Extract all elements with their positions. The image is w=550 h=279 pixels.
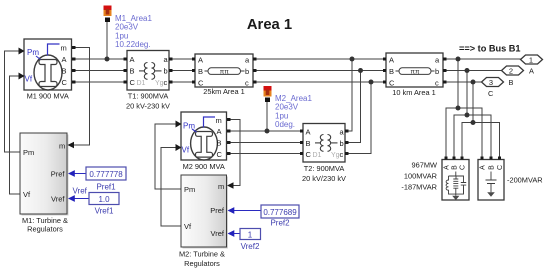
junction load a — [456, 106, 461, 111]
svg-text:Regulators: Regulators — [27, 225, 63, 234]
label M2 Turbine and Regulators — [179, 250, 225, 269]
svg-text:b: b — [435, 67, 439, 76]
port 2 hexagon — [502, 66, 524, 76]
wire phase a: 10km to port 1 — [443, 58, 521, 60]
wire phase c: 25km to 10km block — [253, 81, 386, 83]
wire load distribution phase c — [462, 123, 500, 159]
svg-text:25km Area 1: 25km Area 1 — [203, 87, 245, 96]
svg-text:C: C — [497, 165, 504, 170]
svg-text:Vref: Vref — [211, 229, 225, 238]
svg-text:Pm: Pm — [23, 148, 34, 157]
junction T2 a tap — [350, 57, 355, 62]
svg-text:m: m — [216, 116, 222, 125]
wire T2 b riser to bus — [347, 71, 361, 143]
wire phase a: T1 to 25km block — [169, 58, 195, 60]
wire M1 m measurement — [72, 48, 90, 146]
svg-text:M1_Area1: M1_Area1 — [115, 14, 152, 23]
svg-text:T1: 900MVA: T1: 900MVA — [128, 92, 169, 101]
svg-text:A: A — [479, 165, 486, 170]
measurement icon M1_Area1 — [104, 6, 112, 23]
label M2_Area1 measurements — [275, 94, 312, 129]
svg-text:m: m — [218, 182, 224, 191]
port squares 10km block — [383, 57, 447, 83]
svg-text:A: A — [443, 165, 450, 170]
wire load distribution phase b — [454, 115, 491, 158]
wire T2 a riser to bus — [347, 59, 352, 131]
wire load drop phase a — [457, 59, 459, 108]
svg-text:0.777689: 0.777689 — [263, 208, 297, 217]
line block 10 km Area 1 — [386, 53, 443, 88]
junction load b — [465, 113, 470, 118]
svg-text:B: B — [130, 67, 135, 76]
svg-text:1.0: 1.0 — [98, 195, 110, 204]
label T2 — [302, 164, 346, 183]
svg-text:Vf: Vf — [182, 146, 190, 155]
subsystem M2 Turbine and Regulators — [181, 175, 234, 249]
svg-text:c: c — [245, 79, 249, 88]
svg-text:1pu: 1pu — [275, 111, 288, 120]
svg-text:Pm: Pm — [184, 185, 195, 194]
wire phase C: M1 to T1 — [72, 81, 126, 83]
svg-text:Vref1: Vref1 — [95, 207, 114, 216]
svg-text:c: c — [340, 150, 344, 159]
wire T2 c riser to bus — [347, 82, 371, 154]
junction M1_Area1 tap — [105, 57, 110, 62]
signal label Vref — [73, 187, 88, 196]
svg-text:B: B — [509, 78, 514, 87]
svg-text:Yg: Yg — [331, 152, 340, 159]
junction M2_Area1 tap — [265, 129, 270, 134]
svg-text:B: B — [306, 139, 311, 148]
load block 967MW — [442, 160, 469, 201]
svg-text:ππ: ππ — [411, 68, 420, 75]
wire M1_Area1 tap drop — [106, 21, 108, 59]
label M1 900 MVA — [27, 92, 69, 101]
svg-text:C: C — [217, 150, 223, 159]
measurement icon M2_Area1 — [264, 86, 272, 102]
svg-text:A: A — [62, 55, 67, 64]
label Pref2 — [270, 219, 290, 228]
junction T2 b tap — [358, 68, 363, 73]
svg-text:M2 900 MVA: M2 900 MVA — [183, 162, 225, 171]
svg-text:m: m — [59, 142, 65, 151]
svg-text:20e3V: 20e3V — [275, 103, 299, 112]
wire phase c: T1 to 25km block — [169, 81, 195, 83]
label 25km Area 1 — [203, 87, 245, 96]
svg-text:A: A — [198, 56, 203, 65]
label M2 900 MVA — [183, 162, 225, 171]
svg-text:Vf: Vf — [25, 75, 33, 84]
transformer T2 — [303, 124, 345, 163]
junction bus b load tap — [465, 68, 470, 73]
subsystem M1 Turbine and Regulators — [20, 133, 74, 216]
svg-text:0.777778: 0.777778 — [89, 170, 123, 179]
label Pref1 — [96, 183, 116, 192]
svg-text:b: b — [245, 67, 249, 76]
port squares T1 — [124, 57, 173, 83]
constant Pref2 — [228, 205, 300, 218]
wire load distribution phase a — [446, 108, 482, 158]
svg-text:10 km Area 1: 10 km Area 1 — [392, 88, 436, 97]
port 1 hexagon — [521, 55, 543, 65]
svg-text:Regulators: Regulators — [184, 259, 220, 268]
svg-text:A: A — [306, 128, 311, 137]
svg-text:C: C — [488, 89, 494, 98]
svg-text:Pref1: Pref1 — [96, 183, 116, 192]
svg-text:B: B — [198, 67, 203, 76]
label -200MVAR — [507, 176, 543, 185]
svg-text:Pref: Pref — [210, 206, 225, 215]
svg-text:A: A — [130, 55, 135, 64]
svg-text:c: c — [164, 78, 168, 87]
label M1_Area1 measurements — [115, 14, 152, 49]
svg-text:C: C — [389, 79, 395, 88]
svg-text:b: b — [164, 67, 168, 76]
wire M2 phase A to T2 — [230, 130, 301, 132]
label A under port 1 — [529, 67, 534, 76]
svg-text:Pm: Pm — [27, 48, 39, 57]
junction load c — [471, 120, 476, 125]
label Vref1 — [95, 207, 114, 216]
port squares M2 outputs — [227, 118, 230, 155]
svg-text:Vref2: Vref2 — [241, 242, 260, 251]
label Vref2 — [241, 242, 260, 251]
svg-text:10.22deg.: 10.22deg. — [115, 40, 151, 49]
svg-text:20 kV/230 kV: 20 kV/230 kV — [302, 174, 346, 183]
svg-text:Vref: Vref — [73, 187, 88, 196]
svg-text:M1 900 MVA: M1 900 MVA — [27, 92, 69, 101]
title Area 1 — [247, 17, 292, 33]
label load 967MW — [401, 161, 437, 192]
junction bus c load tap — [471, 80, 476, 85]
wire phase b: T1 to 25km block — [169, 70, 195, 72]
label to Bus B1 — [459, 44, 521, 54]
svg-text:D1: D1 — [313, 152, 322, 159]
svg-text:1pu: 1pu — [115, 31, 128, 40]
port squares 25km block — [192, 57, 257, 83]
svg-text:967MW: 967MW — [412, 161, 437, 170]
wire phase b: 25km to 10km block — [253, 70, 386, 72]
wire phase a: 25km to 10km block — [253, 58, 386, 60]
svg-text:Pref: Pref — [51, 170, 66, 179]
svg-text:B: B — [389, 67, 394, 76]
machine M2 900 MVA — [176, 112, 227, 160]
svg-text:==> to Bus B1: ==> to Bus B1 — [459, 44, 521, 54]
svg-text:Area 1: Area 1 — [247, 17, 292, 33]
svg-text:C: C — [62, 78, 68, 87]
constant Vref1 — [68, 193, 119, 205]
port squares load -200MVAR — [480, 156, 501, 159]
junction bus a load tap — [456, 57, 461, 62]
line block 25km Area 1 — [195, 54, 253, 88]
svg-text:B: B — [217, 139, 222, 148]
svg-text:100MVAR: 100MVAR — [404, 172, 437, 181]
wire phase A: M1 to T1 — [72, 58, 126, 60]
svg-text:20e3V: 20e3V — [115, 23, 139, 32]
machine M1 900 MVA — [19, 39, 72, 90]
svg-text:M2_Area1: M2_Area1 — [275, 94, 312, 103]
svg-text:A: A — [389, 56, 394, 65]
svg-text:0deg.: 0deg. — [275, 120, 295, 129]
label C under port 3 — [488, 89, 494, 98]
svg-text:Yg: Yg — [155, 80, 164, 87]
svg-text:A: A — [529, 67, 534, 76]
port 3 hexagon — [482, 78, 504, 88]
svg-text:Vf: Vf — [23, 190, 31, 199]
svg-text:C: C — [130, 78, 136, 87]
wire phase B: M1 to T1 — [72, 70, 126, 72]
svg-text:C: C — [459, 165, 466, 170]
svg-text:-187MVAR: -187MVAR — [401, 183, 437, 192]
load block -200MVAR — [478, 160, 504, 201]
port squares load 967MW — [444, 156, 463, 159]
svg-text:1: 1 — [529, 56, 533, 65]
svg-text:D1: D1 — [137, 80, 146, 87]
label T1 — [126, 92, 170, 111]
svg-text:-200MVAR: -200MVAR — [507, 176, 543, 185]
svg-text:20 kV-230 kV: 20 kV-230 kV — [126, 102, 170, 111]
wire M1 Pm feedback — [5, 51, 21, 152]
svg-text:C: C — [306, 150, 312, 159]
svg-text:Pm: Pm — [183, 122, 195, 131]
svg-text:T2: 900MVA: T2: 900MVA — [304, 164, 345, 173]
label M1 Turbine and Regulators — [22, 216, 68, 234]
wire M2 Vf feedback — [161, 148, 181, 227]
svg-text:B: B — [62, 67, 67, 76]
svg-text:2: 2 — [509, 67, 513, 76]
svg-text:1: 1 — [248, 231, 253, 240]
svg-text:ππ: ππ — [220, 68, 229, 75]
svg-text:b: b — [340, 139, 344, 148]
svg-text:A: A — [217, 127, 222, 136]
port squares M1 outputs — [72, 46, 75, 84]
wire M2 phase C to T2 — [230, 153, 301, 155]
svg-text:c: c — [435, 79, 439, 88]
svg-text:3: 3 — [489, 78, 493, 87]
constant Pref1 — [68, 167, 126, 180]
wire load drop phase c — [472, 82, 474, 123]
wire M2 m measurement — [230, 120, 240, 186]
wire M1 Vf feedback — [10, 76, 21, 194]
svg-text:Vf: Vf — [184, 222, 192, 231]
svg-text:Pref2: Pref2 — [270, 219, 290, 228]
svg-text:M2: Turbine &: M2: Turbine & — [179, 250, 225, 259]
svg-text:B: B — [451, 165, 458, 170]
svg-text:m: m — [61, 44, 67, 53]
label B under port 2 — [509, 78, 514, 87]
wire load drop phase b — [466, 71, 468, 116]
transformer T1 — [127, 51, 169, 91]
label 10 km Area 1 — [392, 88, 436, 97]
svg-text:Vref: Vref — [51, 195, 65, 204]
svg-text:B: B — [488, 165, 495, 170]
port squares T2 — [300, 129, 349, 155]
wire phase b: 10km to port 2 — [443, 70, 502, 72]
wire M2_Area1 tap drop — [266, 100, 268, 131]
wire M2 phase B to T2 — [230, 142, 301, 144]
constant Vref2 — [228, 229, 261, 240]
wire phase c: 10km to port 3 — [443, 81, 482, 83]
junction T2 c tap — [369, 80, 374, 85]
wire M2 Pm feedback — [155, 124, 181, 189]
